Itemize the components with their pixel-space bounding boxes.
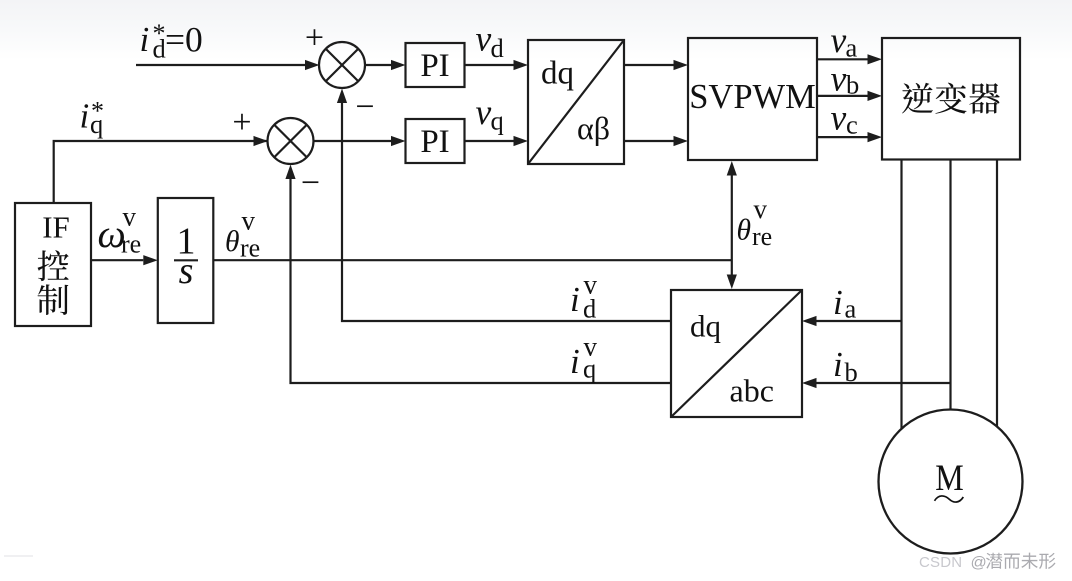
svg-text:q: q [583,354,596,384]
svg-text:a: a [846,33,858,63]
wire vb SVPWM to inverter [817,91,882,101]
label vc [831,98,858,140]
svg-text:d: d [583,294,596,324]
block dq to abc transform [671,290,802,417]
svg-text:i: i [80,97,90,136]
wire vc SVPWM to inverter [817,132,882,142]
wire inverter phase-c line down to motor [996,160,998,428]
block IF control (IF kong zhi) [15,203,91,326]
svg-text:+: + [305,20,324,57]
label va [831,20,858,63]
svg-text:i: i [833,345,843,384]
wire ia from inverter phase-a line into dq/abc [802,316,902,326]
svg-text:abc: abc [730,373,774,409]
label iq* (q-axis current reference) [80,97,105,140]
svg-text:PI: PI [420,48,449,84]
label iq^v feedback [570,332,598,384]
svg-text:q: q [90,109,103,139]
minus sign at summing junction S1 [355,89,374,126]
svg-text:s: s [179,250,194,292]
svg-text:−: − [355,89,374,126]
svg-text:re: re [240,234,260,263]
label vd [476,19,504,64]
svg-text:v: v [831,20,847,60]
svg-text:v: v [831,59,847,99]
block PI controller 1 [406,43,465,87]
svg-text:q: q [491,106,504,136]
svg-text:=0: =0 [165,20,203,60]
svg-text:c: c [846,110,858,140]
svg-text:CSDN: CSDN [919,554,962,571]
svg-text:IF: IF [42,210,70,245]
summing junction S2 (circle with X) [268,118,314,164]
svg-text:d: d [491,33,504,63]
svg-text:re: re [752,222,772,251]
svg-text:v: v [754,194,768,224]
wire S1 to PI controller 1 [365,60,406,70]
svg-text:M: M [935,458,964,499]
wire ib from inverter phase-b line into dq/abc [802,378,951,388]
wire dq/ab output 2 to SVPWM [624,136,688,146]
svg-text:v: v [476,92,492,132]
label theta_re^v at SVPWM input [737,194,773,251]
svg-text:re: re [121,230,141,259]
wire id* reference into summing junction S1 [136,60,320,70]
motor M (circle) [879,410,1023,554]
wire inverter phase-a line down to motor [900,160,902,430]
label vb [831,59,860,100]
wire dq/ab output 1 to SVPWM [624,60,688,70]
svg-text:i: i [570,342,580,381]
label theta_re^v at integrator output [225,206,260,263]
svg-text:a: a [845,294,857,324]
background gradient [0,0,1072,60]
svg-text:i: i [833,283,843,322]
svg-text:+: + [232,104,251,141]
svg-text:i: i [570,280,580,319]
svg-text:@: @ [971,555,987,572]
label ia [833,283,857,324]
block SVPWM [688,38,817,160]
wire va SVPWM to inverter [817,54,882,64]
wire IF control to 1/s integrator [91,255,158,265]
plus sign at summing junction S1 [305,20,324,57]
wire theta vertical double arrow between SVPWM and dq/abc [727,161,737,289]
svg-text:v: v [242,206,256,236]
block 1/s integrator [158,198,214,323]
svg-text:SVPWM: SVPWM [689,78,816,116]
svg-text:θ: θ [225,226,240,258]
block PI controller 2 [406,119,465,163]
svg-text:θ: θ [737,215,752,247]
label vq [476,92,504,136]
svg-text:−: − [301,165,320,202]
minus sign at summing junction S2 [301,165,320,202]
faint artifact line bottom-left [4,555,33,557]
svg-text:PI: PI [420,124,449,160]
label omega_re^v [98,202,142,259]
svg-text:v: v [476,19,492,59]
wire id^v feedback from dq/abc to summing junction S1 [337,89,671,322]
plus sign at summing junction S2 [232,104,251,141]
svg-text:dq: dq [541,56,574,92]
svg-text:αβ: αβ [577,110,610,146]
watermark CSDN @qian er wei xing [919,553,1056,572]
svg-text:v: v [831,98,847,138]
svg-text:i: i [140,20,150,59]
block dq to alpha-beta transform [528,40,624,164]
wire PI2 output vq to dq/ab transform [465,136,529,146]
label id^v feedback [570,270,598,324]
block inverter (ni bian qi) [882,38,1020,160]
label ib [833,345,858,387]
svg-text:v: v [123,202,137,232]
wire iq* from IF control up and into summing junction S2 [54,136,268,203]
wire inverter phase-b line down to motor [949,160,951,411]
wire PI1 output vd to dq/ab transform [465,60,529,70]
summing junction S1 (circle with X) [319,42,365,88]
wire theta_re^v from integrator to SVPWM/dq-abc vertical [213,259,732,261]
wire S2 to PI controller 2 [314,136,406,146]
wire iq^v feedback from dq/abc to summing junction S2 [285,165,671,384]
svg-text:dq: dq [690,309,721,344]
label id*=0 (d-axis current reference) [140,19,203,64]
svg-text:d: d [153,34,166,64]
